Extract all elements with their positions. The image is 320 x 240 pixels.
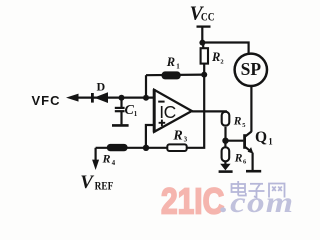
svg-text:1: 1 (268, 137, 273, 147)
svg-text:D: D (97, 80, 106, 94)
label R3 (172, 128, 187, 143)
svg-text:3: 3 (184, 135, 188, 143)
watermark dianziwang glyphs (232, 181, 285, 198)
wire non-inverting input (146, 125, 154, 148)
wire feedback vertical (145, 75, 147, 98)
label R2 (211, 50, 224, 66)
power Vcc (197, 27, 211, 43)
svg-text:R: R (211, 50, 220, 64)
node non-inverting rail (143, 145, 149, 151)
wire speaker to collector (250, 86, 252, 132)
svg-text:2: 2 (220, 59, 223, 66)
svg-text:SP: SP (241, 59, 262, 79)
label R4 (102, 152, 116, 167)
resistor R6 (222, 141, 230, 165)
label VREF (80, 172, 113, 193)
wire A to speaker (202, 43, 248, 54)
svg-text:1: 1 (176, 62, 180, 70)
ground below C1 (112, 124, 129, 127)
svg-text:VFC: VFC (32, 93, 61, 108)
wire VFC input to op-amp (76, 96, 155, 98)
svg-text:Q: Q (255, 129, 267, 146)
resistor R1 (162, 71, 181, 79)
transistor Q1 (226, 132, 254, 171)
op-amp IC (154, 89, 192, 132)
resistor R5 (222, 111, 230, 138)
node A below Vcc (199, 40, 205, 46)
diode D (91, 92, 108, 103)
capacitor C1 (115, 98, 125, 125)
label Q1 (255, 129, 273, 147)
node C1 tap (119, 95, 125, 101)
watermark 21IC (161, 182, 224, 222)
node inverting input (143, 95, 149, 101)
svg-text:R: R (234, 152, 243, 164)
resistor R3 (167, 144, 186, 151)
label R5 (233, 116, 247, 129)
resistor R4 (107, 144, 128, 151)
resistor R2 (201, 43, 208, 75)
input VREF arrow (92, 148, 99, 170)
svg-text:R: R (172, 128, 182, 143)
VFC signal arrowhead (66, 94, 79, 102)
wire output (192, 110, 227, 112)
watermark .com (220, 186, 294, 219)
svg-text:1: 1 (134, 110, 138, 118)
label R6 (234, 152, 247, 165)
svg-text:CC: CC (201, 10, 215, 23)
svg-text:IC: IC (159, 102, 176, 122)
svg-text:R: R (166, 55, 175, 69)
ground emitter (246, 170, 261, 173)
wire B down to rail (96, 75, 205, 148)
label Vcc (190, 4, 215, 25)
svg-text:REF: REF (95, 179, 114, 192)
svg-text:4: 4 (112, 159, 116, 167)
svg-text:R: R (102, 152, 111, 166)
speaker SP (235, 54, 267, 86)
svg-text:R: R (233, 116, 242, 128)
ground below R6 (219, 164, 233, 172)
node base divider (222, 138, 228, 144)
label C1 (125, 103, 138, 118)
node B below R2 (201, 72, 207, 78)
label R1 (166, 55, 181, 70)
svg-text:V: V (80, 172, 94, 193)
wire feedback horizontal (146, 73, 204, 76)
svg-text:21IC: 21IC (161, 182, 224, 222)
